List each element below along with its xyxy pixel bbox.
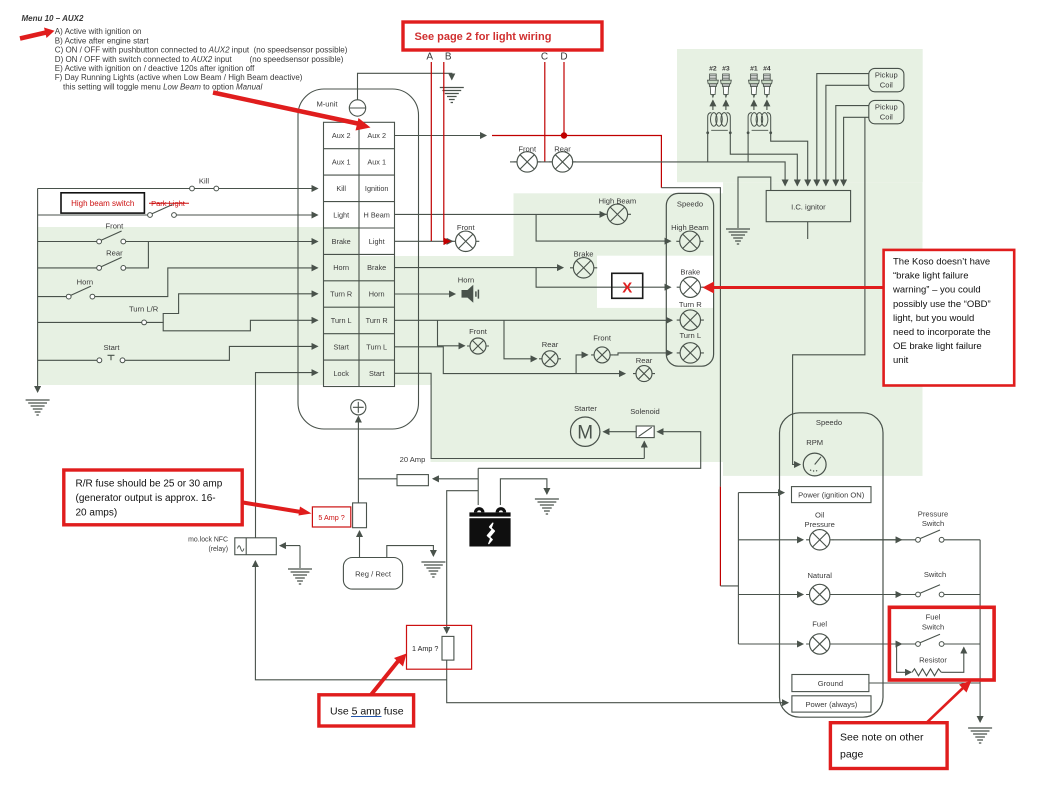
svg-text:Fuel: Fuel	[926, 613, 941, 622]
annotation: see page 2 box	[403, 22, 602, 50]
wire: horn button input	[38, 268, 318, 297]
lamp: position rear	[549, 152, 576, 172]
svg-text:Aux 1: Aux 1	[332, 158, 351, 167]
switch: fuel	[916, 634, 944, 646]
svg-text:Turn L: Turn L	[679, 331, 701, 340]
svg-text:Rear: Rear	[554, 144, 571, 153]
svg-text:Turn L: Turn L	[331, 316, 352, 325]
svg-text:C) ON / OFF with pushbutton co: C) ON / OFF with pushbutton connected to…	[55, 46, 348, 55]
terminal labels A B C D	[426, 52, 567, 63]
svg-text:High Beam: High Beam	[599, 196, 637, 205]
svg-text:Brake: Brake	[367, 263, 386, 272]
lamp: natural (neutral)	[806, 584, 833, 604]
annotation: red box around fuel switch/resistor	[889, 607, 994, 680]
wire: pressure switch to right bus	[944, 539, 980, 541]
svg-text:High Beam: High Beam	[671, 223, 709, 232]
starter motor	[571, 417, 600, 446]
svg-text:B: B	[445, 52, 452, 63]
lamp: oil pressure	[806, 530, 833, 550]
svg-text:Ground: Ground	[818, 679, 843, 688]
ground: reg/rect	[421, 562, 445, 577]
svg-text:Light: Light	[333, 210, 349, 219]
red wire B into front light lamp	[444, 62, 450, 241]
svg-text:Switch: Switch	[922, 519, 944, 528]
red wire A	[430, 62, 432, 241]
annotation: see note box	[830, 723, 947, 769]
svg-text:light, but you would: light, but you would	[893, 313, 974, 324]
switch: horn button	[66, 286, 95, 299]
svg-text:20 amps): 20 amps)	[76, 508, 118, 519]
red wire D to junction	[563, 62, 565, 136]
svg-text:warning” – you could: warning” – you could	[892, 285, 981, 296]
lamp: front light	[452, 231, 479, 251]
speedo2 feed bus	[737, 493, 739, 644]
wire: solenoid to starter	[604, 431, 637, 433]
green background: left switch/lamp zone	[38, 227, 723, 385]
pickup coil 2	[869, 100, 904, 123]
fuse 20 Amp	[397, 475, 428, 486]
svg-text:Front: Front	[518, 144, 537, 153]
switch: pressure	[916, 530, 944, 542]
svg-text:(relay): (relay)	[208, 546, 228, 553]
switch: start pushbutton	[97, 355, 125, 362]
svg-text:Pressure: Pressure	[918, 510, 948, 519]
svg-text:Pickup: Pickup	[875, 103, 898, 112]
right ground bus	[979, 540, 981, 722]
svg-text:#4: #4	[763, 66, 771, 73]
wire: oil lamp to pressure switch	[833, 539, 916, 541]
svg-text:Brake: Brake	[680, 267, 700, 276]
wire: reg/rect to ground	[387, 546, 434, 558]
wire: coil2 right terminal to ignitor	[771, 133, 808, 186]
svg-text:Front: Front	[469, 327, 488, 336]
svg-text:H Beam: H Beam	[364, 210, 390, 219]
reg / rect	[343, 558, 402, 590]
svg-text:Turn L/R: Turn L/R	[129, 305, 159, 314]
svg-text:Pressure: Pressure	[805, 520, 835, 529]
wire: ground box to right bus	[869, 682, 980, 684]
svg-text:Brake: Brake	[332, 237, 351, 246]
svg-text:1 Amp ?: 1 Amp ?	[412, 644, 438, 653]
wire: coil2 left terminal to common feed	[747, 133, 749, 162]
lamp: speedo high beam indicator	[676, 231, 703, 251]
svg-text:#1: #1	[750, 66, 758, 73]
lamp: fuel	[806, 634, 833, 654]
svg-text:M: M	[577, 423, 593, 444]
wire: turn R branch to m-unit	[147, 294, 318, 323]
svg-text:Turn R: Turn R	[366, 316, 388, 325]
svg-text:Aux 2: Aux 2	[367, 131, 386, 140]
annotation: use 5 amp fuse box	[319, 695, 414, 726]
svg-text:Horn: Horn	[333, 263, 349, 272]
annotation: koso note box	[884, 250, 1015, 386]
green background: ignition coil zone	[677, 49, 923, 182]
svg-text:OE brake light failure: OE brake light failure	[893, 341, 982, 352]
svg-text:Kill: Kill	[336, 184, 346, 193]
wire: h-beam output to high beam lamp	[395, 213, 606, 215]
wire: pickup1 a to ignitor	[817, 74, 869, 186]
svg-text:possibly use the “OBD”: possibly use the “OBD”	[893, 299, 991, 310]
wire: position lamp feed to IC ignitor	[572, 162, 785, 186]
svg-text:Rear: Rear	[636, 356, 653, 365]
wire: reg/rect up to 5A fuse	[359, 531, 361, 558]
svg-text:B) Active after engine start: B) Active after engine start	[55, 36, 150, 45]
svg-text:(generator output is approx. 1: (generator output is approx. 16-	[76, 493, 216, 504]
svg-text:Front: Front	[106, 221, 125, 230]
svg-text:F) Day Running Lights (active: F) Day Running Lights (active when Low B…	[55, 73, 303, 82]
wire: turn R branch to rear indicator	[504, 320, 537, 359]
wire: 1A fuse to mo.lock and power always	[447, 660, 788, 703]
wire: rear brake switch input joining front	[38, 242, 149, 268]
svg-text:R/R fuse should be 25 or 30 am: R/R fuse should be 25 or 30 amp	[76, 479, 223, 490]
lamp: position front	[514, 152, 541, 172]
svg-text:Rear: Rear	[106, 249, 123, 258]
ground: mo.lock	[288, 569, 312, 584]
svg-text:Aux 1: Aux 1	[367, 158, 386, 167]
wire: red feed joins speedo2 bus	[720, 585, 738, 587]
wire: front brake switch input	[38, 241, 318, 243]
svg-text:mo.lock NFC: mo.lock NFC	[188, 537, 228, 544]
spark plugs #2 #3 #1 #4	[708, 66, 773, 111]
svg-text:D) ON / OFF with switch connec: D) ON / OFF with switch connected to AUX…	[55, 55, 344, 64]
wire: battery negative to ground	[500, 479, 547, 505]
ground: battery	[535, 499, 559, 514]
ignition coil 2	[747, 113, 772, 135]
wire: 20A fuse to m-unit feed	[358, 478, 397, 480]
green background: high-beam strip	[514, 193, 724, 227]
fuse 1 Amp	[442, 636, 454, 660]
svg-text:Turn R: Turn R	[330, 290, 352, 299]
svg-text:Use 5 amp fuse: Use 5 amp fuse	[330, 706, 404, 718]
svg-text:Speedo: Speedo	[677, 200, 703, 209]
svg-text:Switch: Switch	[924, 570, 946, 579]
wire: resistor right lead up	[941, 648, 964, 673]
ground: left bus	[26, 400, 50, 415]
M-unit pin table	[324, 122, 395, 386]
lamp: brake light	[570, 258, 597, 278]
lamp: turn rear right	[633, 366, 655, 382]
wire: resistor bypass left lead	[897, 644, 911, 672]
svg-text:Power (ignition ON): Power (ignition ON)	[798, 490, 865, 499]
annotation: 1 Amp ? box	[407, 625, 472, 669]
svg-text:Speedo: Speedo	[816, 418, 842, 427]
svg-text:M-unit: M-unit	[316, 100, 338, 109]
svg-text:Turn R: Turn R	[679, 300, 702, 309]
svg-text:Start: Start	[369, 369, 384, 378]
svg-text:Horn: Horn	[369, 290, 385, 299]
annotation: 5 Amp ? box	[312, 507, 350, 527]
svg-text:Front: Front	[593, 333, 612, 342]
red arrow from menu text to aux2 pin	[213, 93, 360, 125]
svg-text:C: C	[541, 52, 548, 63]
ignition coil 1	[706, 113, 731, 135]
speedo head unit 1	[666, 193, 713, 366]
svg-text:The Koso doesn’t have: The Koso doesn’t have	[893, 257, 990, 268]
svg-text:“brake light failure: “brake light failure	[893, 271, 969, 282]
lamp: speedo turn R indicator	[677, 310, 704, 330]
lamp: speedo brake indicator	[677, 277, 704, 297]
svg-text:Rear: Rear	[542, 340, 559, 349]
svg-text:See note on other: See note on other	[840, 732, 924, 744]
svg-text:D: D	[560, 52, 567, 63]
mo.lock NFC relay	[235, 538, 276, 555]
red arrow r/r note to 5A fuse	[243, 503, 301, 513]
wire: light input	[38, 214, 318, 216]
wire: turn L branch up to front right indicator	[576, 355, 587, 374]
svg-text:Horn: Horn	[77, 278, 93, 287]
svg-text:page: page	[840, 749, 864, 761]
svg-text:#2: #2	[709, 66, 717, 73]
wire: mo.lock to ground	[280, 545, 300, 547]
svg-text:need to incorporate the: need to incorporate the	[893, 327, 991, 338]
annotation: high beam switch box	[61, 193, 144, 213]
wire: turn switch input	[38, 321, 142, 323]
box: power (ignition ON)	[792, 487, 872, 503]
svg-text:#3: #3	[722, 66, 730, 73]
svg-text:Natural: Natural	[807, 571, 832, 580]
white cutout around brake warning area	[597, 256, 713, 308]
switch: turn L/R selector	[142, 320, 147, 325]
wire: front right indicator to speedo turn L	[613, 353, 672, 355]
box: power (always)	[792, 696, 871, 712]
green background: right mid zone	[723, 182, 923, 476]
svg-text:20 Amp: 20 Amp	[400, 455, 426, 464]
M-unit top power symbol	[349, 100, 365, 116]
M-unit bottom battery terminal	[351, 400, 366, 415]
switch: front brake	[97, 231, 126, 244]
svg-text:A: A	[426, 52, 433, 63]
wire: tach signal to speedo2 rpm	[793, 117, 865, 464]
wire: natural lamp to switch	[833, 594, 916, 596]
svg-text:Resistor: Resistor	[919, 656, 947, 665]
menu text block	[22, 14, 348, 91]
red wire aux2 feed	[492, 136, 661, 188]
speedo head unit 2	[780, 413, 884, 717]
wire: neutral switch to right bus	[944, 594, 980, 596]
wire: coil1 left terminal to common feed	[707, 133, 709, 162]
wire: start button input	[38, 346, 318, 360]
wire: turn R branch to front indicator	[438, 320, 465, 346]
svg-text:Switch: Switch	[922, 622, 944, 631]
lamp: turn front right	[591, 347, 613, 363]
wire: aux2 output	[395, 135, 487, 137]
svg-text:Coil: Coil	[880, 112, 893, 121]
svg-text:Fuel: Fuel	[812, 619, 827, 628]
svg-text:Reg / Rect: Reg / Rect	[355, 570, 392, 579]
wire: light output to front light lamp	[395, 240, 453, 242]
annotation: r/r fuse box	[64, 470, 242, 525]
wire: coil1 right terminal to ignitor	[730, 133, 797, 186]
svg-text:Menu 10 – AUX2: Menu 10 – AUX2	[22, 14, 84, 23]
svg-text:Light: Light	[369, 237, 385, 246]
wire: m-unit top to chassis ground	[358, 73, 452, 100]
svg-text:Lock: Lock	[333, 369, 349, 378]
svg-text:Brake: Brake	[574, 250, 594, 259]
svg-text:Power (always): Power (always)	[805, 700, 857, 709]
green background: starter strip	[431, 385, 724, 462]
svg-text:E) Active with ignition on / d: E) Active with ignition on / deactive 12…	[55, 64, 255, 73]
wire: turn L branch to m-unit	[163, 320, 317, 331]
box: missing brake light failure unit (red X)	[612, 273, 643, 298]
wire: m-unit battery feed down to 5A fuse	[357, 417, 359, 503]
wire: kill input	[38, 188, 318, 190]
IC ignitor box	[766, 191, 850, 222]
wire: power ignition feed	[738, 492, 784, 494]
svg-text:Start: Start	[333, 343, 348, 352]
svg-text:Solenoid: Solenoid	[630, 407, 660, 416]
svg-text:Start: Start	[103, 343, 120, 352]
red junction dot D	[561, 132, 567, 138]
wire: horn output	[395, 293, 456, 295]
svg-text:this setting will toggle menu: this setting will toggle menu Low Beam t…	[63, 82, 262, 91]
svg-text:Starter: Starter	[574, 404, 597, 413]
switch: rear brake	[97, 257, 126, 270]
red arrow use-5amp note to 1A fuse	[371, 660, 399, 695]
red arrow see-note to resistor box	[927, 687, 964, 723]
wire: ignitor ground pin	[738, 177, 771, 228]
svg-text:X: X	[622, 280, 632, 297]
svg-text:High beam switch: High beam switch	[71, 199, 134, 208]
resistor	[912, 669, 941, 676]
wire: ignition-switched feed down right side	[661, 188, 720, 487]
svg-text:Oil: Oil	[815, 510, 825, 519]
lamp: high beam	[604, 204, 631, 224]
wire: ignitor bottom stub	[807, 222, 809, 239]
wire: start output to solenoid	[395, 373, 645, 458]
wire: fuel lamp feed	[738, 643, 803, 645]
wire: left ground bus	[37, 189, 39, 393]
fuse 5 Amp	[353, 503, 367, 528]
svg-text:5 Amp ?: 5 Amp ?	[318, 513, 344, 522]
ground: right bus	[968, 728, 992, 743]
pickup coil 1	[869, 68, 904, 91]
svg-text:I.C. ignitor: I.C. ignitor	[791, 202, 826, 211]
lamp: turn rear left	[539, 351, 561, 367]
wire: oil pressure lamp feed	[738, 539, 803, 541]
wire: turn R output to speedo	[395, 319, 673, 321]
battery	[469, 507, 510, 546]
lamp: turn front left	[467, 338, 489, 354]
wire: 20A fuse feed	[433, 478, 478, 480]
wire: brake branch through failure-unit box to speedo brake indicator	[536, 268, 670, 288]
svg-text:Horn: Horn	[458, 275, 474, 284]
wire: battery feed to 1A fuse	[447, 491, 479, 633]
solenoid	[636, 426, 654, 438]
wire: pickup1 b to ignitor	[826, 85, 869, 185]
M-unit outline	[298, 89, 419, 429]
wire: pickup2 a to ignitor	[836, 106, 869, 186]
wire: lock input from mo.lock relay	[256, 373, 318, 538]
wire: natural lamp feed	[738, 594, 803, 596]
wire: turn L output	[395, 347, 626, 374]
svg-text:Pickup: Pickup	[875, 71, 898, 80]
ground: top near B	[440, 88, 464, 103]
red arrow koso note to brake indicator	[713, 286, 884, 289]
box: ground	[792, 675, 869, 692]
wire: position lamps link	[510, 161, 517, 163]
switch: neutral	[916, 585, 944, 597]
svg-text:unit: unit	[893, 355, 909, 366]
wire: pickup2 b to ignitor	[844, 117, 869, 185]
red arrow to option A	[20, 33, 46, 39]
white cutout around front light lamp	[359, 227, 513, 256]
svg-text:A) Active with ignition on: A) Active with ignition on	[55, 27, 142, 36]
wire: branch to speedo high beam indicator	[536, 214, 670, 241]
svg-text:RPM: RPM	[806, 438, 823, 447]
svg-text:Coil: Coil	[880, 80, 893, 89]
svg-text:Ignition: Ignition	[365, 184, 389, 193]
ground: ignitor	[726, 229, 750, 244]
switch: light	[148, 205, 177, 218]
wire: fuel lamp to fuel switch	[833, 643, 916, 645]
svg-text:Aux 2: Aux 2	[332, 131, 351, 140]
lamp: speedo turn L indicator	[677, 343, 704, 363]
switch: kill	[190, 186, 219, 191]
red wire C to position lamps	[544, 62, 546, 162]
svg-text:Front: Front	[457, 223, 476, 232]
svg-text:Turn L: Turn L	[366, 343, 387, 352]
wire: battery positive drop	[477, 468, 479, 505]
wire: brake output to brake lamp	[395, 267, 564, 269]
wire: fuel switch to right bus	[944, 643, 980, 645]
svg-text:Kill: Kill	[199, 177, 209, 186]
rpm gauge	[803, 453, 826, 476]
horn speaker	[462, 285, 479, 303]
red wire: feed to speedo2 bus	[719, 487, 721, 586]
svg-text:See page 2 for light wiring: See page 2 for light wiring	[415, 31, 552, 43]
wire: battery positive to solenoid contact	[478, 432, 701, 469]
